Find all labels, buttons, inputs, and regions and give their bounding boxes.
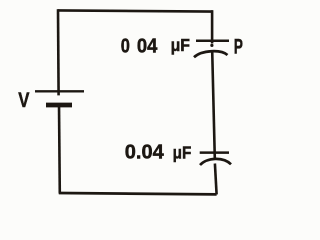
wire top — [58, 10, 213, 11]
battery V short plate — [46, 103, 72, 108]
svg-text:0: 0 — [121, 34, 130, 57]
wire right upper — [211, 10, 214, 43]
node dot between C1 plates — [210, 44, 213, 47]
svg-text:μF: μF — [171, 35, 190, 55]
capacitor C2 top plate — [200, 151, 229, 154]
wire bottom — [59, 193, 217, 194]
svg-text:μF: μF — [173, 142, 192, 162]
svg-text:0.04: 0.04 — [125, 142, 165, 164]
capacitor C1 curved plate — [194, 51, 228, 57]
svg-text:04: 04 — [137, 35, 158, 58]
wire right middle — [212, 51, 215, 159]
wire right lower — [215, 164, 217, 195]
capacitor C1 top plate — [196, 39, 229, 42]
svg-text:P: P — [234, 34, 243, 58]
wire left upper — [57, 9, 60, 95]
svg-text:V: V — [18, 90, 29, 113]
capacitor C2 curved plate — [200, 159, 231, 165]
battery V long plate — [35, 90, 84, 92]
wire left lower — [58, 105, 61, 194]
